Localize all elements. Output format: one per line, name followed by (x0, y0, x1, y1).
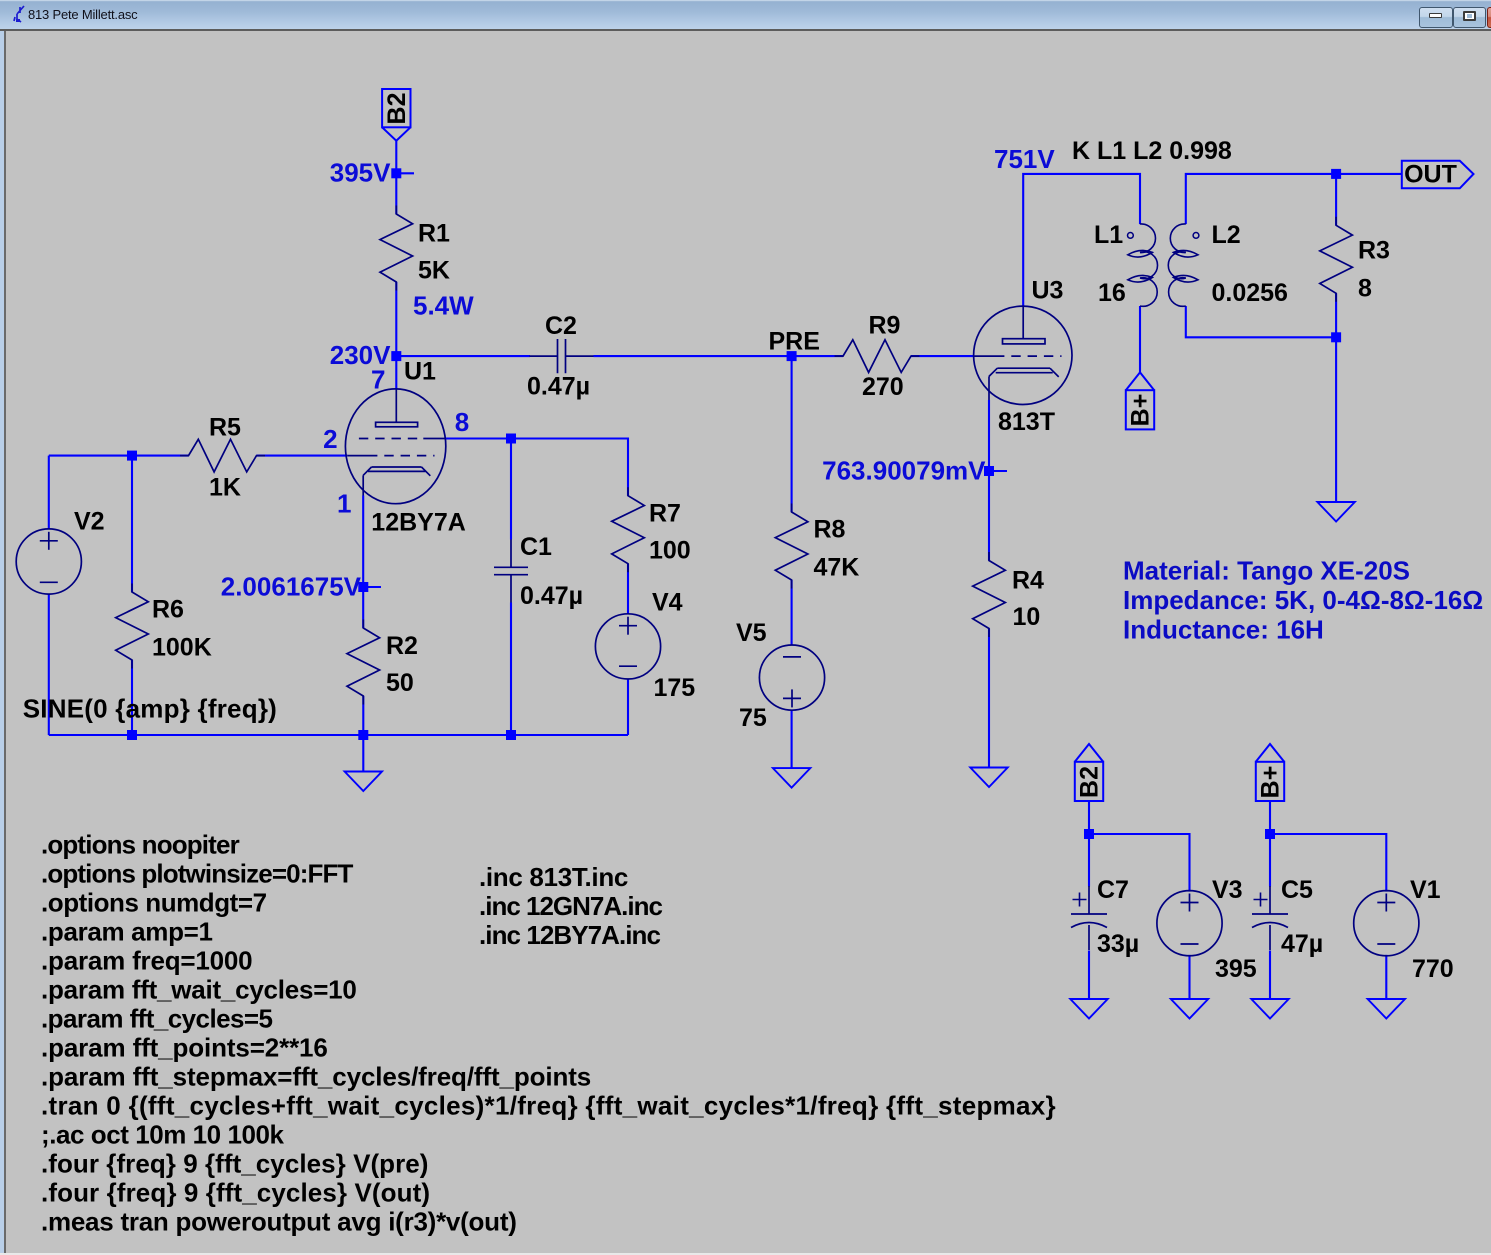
svg-text:.param fft_stepmax=fft_cycles/: .param fft_stepmax=fft_cycles/freq/fft_p… (41, 1062, 591, 1092)
svg-text:751V: 751V (994, 144, 1055, 174)
svg-text:SINE(0 {amp} {freq}): SINE(0 {amp} {freq}) (23, 694, 277, 724)
svg-text:R5: R5 (209, 414, 241, 442)
svg-text:8: 8 (455, 407, 469, 437)
svg-text:1K: 1K (209, 474, 241, 502)
svg-text:.options plotwinsize=0:FFT: .options plotwinsize=0:FFT (41, 859, 354, 889)
svg-text:R8: R8 (814, 516, 846, 544)
svg-text:.param fft_wait_cycles=10: .param fft_wait_cycles=10 (41, 975, 357, 1005)
svg-text:C7: C7 (1097, 876, 1129, 904)
svg-text:R7: R7 (649, 500, 681, 528)
svg-text:813T: 813T (998, 408, 1055, 436)
svg-text:C2: C2 (545, 312, 577, 340)
svg-text:.four {freq} 9 {fft_cycles} V(: .four {freq} 9 {fft_cycles} V(out) (41, 1178, 430, 1208)
svg-text:.inc 12BY7A.inc: .inc 12BY7A.inc (479, 920, 660, 950)
svg-text:R9: R9 (869, 312, 901, 340)
svg-text:395: 395 (1215, 955, 1257, 983)
svg-text:R6: R6 (152, 596, 184, 624)
svg-text:.param fft_cycles=5: .param fft_cycles=5 (41, 1004, 273, 1034)
svg-text:47K: 47K (814, 553, 860, 581)
svg-text:7: 7 (371, 365, 385, 395)
svg-text:V5: V5 (736, 619, 767, 647)
svg-text:Material: Tango XE-20S: Material: Tango XE-20S (1123, 556, 1410, 586)
svg-text:.options noopiter: .options noopiter (41, 830, 240, 860)
svg-text:PRE: PRE (769, 328, 820, 356)
svg-text:10: 10 (1013, 603, 1041, 631)
svg-text:B+: B+ (1127, 394, 1155, 427)
svg-text:B+: B+ (1257, 766, 1285, 799)
svg-text:B2: B2 (383, 93, 411, 125)
svg-text:R2: R2 (386, 632, 418, 660)
svg-text:V2: V2 (74, 508, 105, 536)
svg-text:5K: 5K (418, 256, 450, 284)
svg-text:B2: B2 (1076, 766, 1104, 798)
svg-text:C5: C5 (1281, 876, 1313, 904)
svg-text:K L1 L2 0.998: K L1 L2 0.998 (1072, 137, 1232, 165)
svg-text:V1: V1 (1410, 876, 1441, 904)
svg-text:.four {freq} 9 {fft_cycles} V(: .four {freq} 9 {fft_cycles} V(pre) (41, 1149, 429, 1179)
svg-text:33µ: 33µ (1097, 930, 1139, 958)
svg-text:U3: U3 (1032, 277, 1064, 305)
svg-text:2: 2 (323, 424, 337, 454)
svg-text:5.4W: 5.4W (413, 291, 474, 321)
svg-text:0.0256: 0.0256 (1212, 279, 1288, 307)
svg-text:47µ: 47µ (1281, 930, 1323, 958)
svg-text:OUT: OUT (1404, 161, 1457, 189)
svg-text:75: 75 (739, 704, 767, 732)
svg-text:.meas tran poweroutput avg i(r: .meas tran poweroutput avg i(r3)*v(out) (41, 1207, 517, 1237)
svg-text:V3: V3 (1212, 876, 1243, 904)
svg-text:L2: L2 (1212, 221, 1241, 249)
svg-text:0.47µ: 0.47µ (527, 373, 590, 401)
svg-text:16: 16 (1098, 279, 1126, 307)
svg-text:8: 8 (1358, 275, 1372, 303)
svg-text:12BY7A: 12BY7A (371, 509, 466, 537)
svg-text:.tran 0 {(fft_cycles+fft_wait_: .tran 0 {(fft_cycles+fft_wait_cycles)*1/… (41, 1091, 1056, 1121)
svg-text:395V: 395V (330, 157, 391, 187)
svg-text:175: 175 (654, 674, 696, 702)
svg-text:.inc 12GN7A.inc: .inc 12GN7A.inc (479, 891, 662, 921)
svg-text:V4: V4 (652, 589, 683, 617)
svg-text:2.0061675V: 2.0061675V (221, 571, 362, 601)
svg-text:.inc 813T.inc: .inc 813T.inc (479, 862, 628, 892)
svg-text:R3: R3 (1358, 237, 1390, 265)
svg-text:100K: 100K (152, 634, 212, 662)
svg-text:.param amp=1: .param amp=1 (41, 917, 213, 947)
svg-text:R1: R1 (418, 220, 450, 248)
svg-text:.param fft_points=2**16: .param fft_points=2**16 (41, 1033, 328, 1063)
svg-text:270: 270 (862, 373, 904, 401)
svg-text:.param freq=1000: .param freq=1000 (41, 946, 252, 976)
svg-text:1: 1 (337, 488, 351, 518)
svg-text:;.ac oct 10m 10 100k: ;.ac oct 10m 10 100k (41, 1120, 284, 1150)
svg-text:Impedance: 5K, 0-4Ω-8Ω-16Ω: Impedance: 5K, 0-4Ω-8Ω-16Ω (1123, 585, 1483, 615)
svg-text:100: 100 (649, 537, 691, 565)
svg-text:Inductance: 16H: Inductance: 16H (1123, 615, 1324, 645)
svg-text:0.47µ: 0.47µ (520, 582, 583, 610)
svg-text:770: 770 (1412, 955, 1454, 983)
svg-text:763.90079mV: 763.90079mV (822, 456, 986, 486)
svg-text:L1: L1 (1094, 221, 1123, 249)
svg-text:.options numdgt=7: .options numdgt=7 (41, 888, 267, 918)
svg-text:C1: C1 (520, 533, 552, 561)
svg-text:R4: R4 (1012, 567, 1044, 595)
svg-text:U1: U1 (404, 358, 436, 386)
svg-text:50: 50 (386, 669, 414, 697)
